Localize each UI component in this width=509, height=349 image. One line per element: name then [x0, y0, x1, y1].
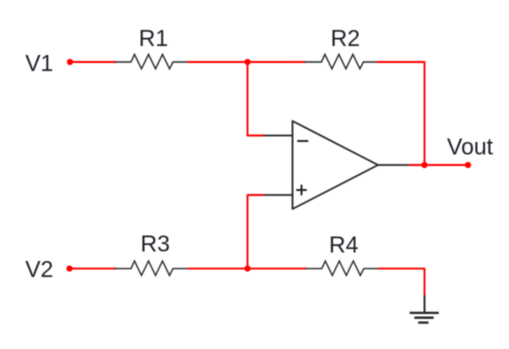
resistor R3 — [115, 261, 188, 275]
op-amp U1 inverting input pin — [264, 135, 293, 137]
op-amp U1 plus sign — [297, 186, 306, 195]
node V1 terminal dot — [67, 59, 73, 65]
resistor R1 — [115, 54, 188, 68]
wire R4 to ground — [379, 269, 425, 296]
op-amp U1 minus sign — [298, 140, 308, 142]
wire node A to R2 — [248, 61, 305, 63]
svg-text:V2: V2 — [25, 256, 53, 282]
ground symbol — [410, 313, 439, 323]
junction dot output / feedback — [421, 162, 427, 168]
wire R3 to node B — [188, 268, 248, 270]
resistor R4 — [306, 261, 379, 275]
wire R1 to node A — [188, 61, 248, 63]
wire node A down to inverting input — [248, 62, 265, 136]
wire V2 to R3 — [70, 268, 116, 270]
ground lead stub — [424, 296, 426, 313]
wire V1 to R1 — [70, 61, 115, 63]
op-amp U1 non-inverting input pin — [263, 194, 293, 196]
svg-text:R3: R3 — [141, 231, 170, 257]
node Vout terminal dot — [465, 162, 471, 168]
svg-text:V1: V1 — [25, 50, 53, 76]
svg-text:Vout: Vout — [447, 133, 494, 159]
op-amp U1 triangle — [293, 121, 379, 209]
node B junction dot — [244, 266, 250, 272]
op-amp U1 output pin — [378, 164, 410, 166]
wire node B up to non-inverting input — [248, 195, 264, 269]
wire R2 to output node (right feedback drop) — [377, 62, 424, 165]
node A junction dot (feedback tap) — [244, 59, 250, 65]
node V2 terminal dot — [66, 266, 72, 272]
wire output pin to Vout — [410, 164, 469, 166]
svg-text:R2: R2 — [331, 25, 360, 51]
svg-text:R4: R4 — [329, 231, 359, 257]
resistor R2 — [305, 54, 378, 68]
wire node B to R4 — [248, 268, 307, 270]
svg-text:R1: R1 — [139, 25, 168, 51]
